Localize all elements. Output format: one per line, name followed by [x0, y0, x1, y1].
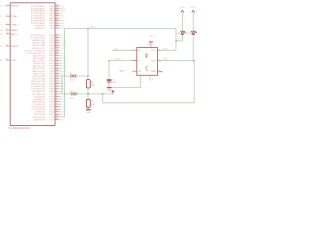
svg-text:smd: smd: [70, 97, 74, 99]
svg-text:(A8/PCINT): (A8/PCINT): [34, 118, 46, 121]
IC1 right pin row 28: [55, 78, 60, 80]
svg-text:(WR/INT7): (WR/INT7): [35, 28, 46, 30]
svg-text:4: 4: [158, 49, 159, 51]
svg-text:A14: A14: [60, 106, 65, 109]
svg-text:ADC4: ADC4: [60, 65, 66, 68]
wire bottom long horizontal: [103, 102, 195, 104]
svg-text:(ADC6/TDO): (ADC6/TDO): [32, 70, 45, 73]
svg-text:VCC: VCC: [180, 7, 185, 9]
svg-text:(ADC7/TDI): (ADC7/TDI): [34, 72, 46, 75]
svg-text:AGND: AGND: [12, 45, 19, 48]
svg-text:4N35: 4N35: [119, 71, 125, 73]
junction divider tap: [87, 93, 89, 95]
svg-text:C1: C1: [112, 79, 115, 81]
IC1 right pin row 25: [55, 70, 60, 72]
svg-text:32: 32: [6, 29, 8, 31]
svg-text:A13: A13: [60, 103, 65, 106]
svg-text:AD4: AD4: [60, 111, 65, 114]
svg-text:LED2: LED2: [188, 33, 193, 35]
svg-text:(ADC4/TCK): (ADC4/TCK): [33, 65, 46, 68]
IC1 right pin row 24: [55, 67, 60, 69]
ground symbol under cap: [107, 87, 112, 88]
IC1 left pin XTAL1: [6, 24, 11, 26]
wire long horizontal top: [65, 28, 177, 30]
supply bar on IC2 top pin: [149, 41, 153, 43]
IC1 left pin XTAL2: [6, 15, 11, 17]
IC2 internal transistor symbol: [146, 66, 148, 71]
svg-text:(OC0A/INT4): (OC0A/INT4): [32, 93, 45, 96]
IC1 right pin row 22: [55, 62, 60, 64]
wire bottom right riser: [193, 61, 195, 103]
ground symbol below R2: [86, 109, 91, 110]
svg-text:R1: R1: [91, 82, 95, 84]
svg-text:IC1 MEGA128-16AU: IC1 MEGA128-16AU: [9, 127, 31, 130]
IC1 right pin row 2: [55, 7, 60, 9]
IC1 left pin AVCC: [6, 33, 11, 35]
wire IC1 pin through SJ2 to corner: [60, 93, 113, 95]
IC1 right pin row 7: [55, 20, 60, 22]
svg-text:4: 4: [152, 79, 154, 81]
IC2 bottom pin stub: [149, 75, 151, 80]
junction jumper SJ1 wire: [87, 75, 89, 77]
IC1 right pin row 35: [55, 95, 60, 97]
wire vertical link between jumper rows: [61, 76, 63, 94]
svg-text:(T2/XTAL0): (T2/XTAL0): [34, 113, 45, 116]
wire IC2 pin2 to cap column: [109, 60, 137, 62]
wire riser vertical: [64, 29, 66, 117]
svg-text:A12: A12: [60, 100, 65, 103]
svg-text:ADC0: ADC0: [60, 54, 66, 57]
IC1 right pin row 11: [55, 34, 60, 36]
svg-text:RST: RST: [0, 6, 4, 8]
svg-text:AREF: AREF: [12, 29, 18, 32]
svg-text:(OC2A/OC1A): (OC2A/OC1A): [31, 85, 45, 88]
svg-text:OC1A: OC1A: [60, 42, 66, 45]
IC1 right pin row 8: [55, 22, 60, 24]
svg-text:GND: GND: [12, 60, 17, 62]
IC1 right pin row 9: [55, 25, 60, 27]
IC1 left pin GND: [6, 59, 11, 61]
svg-text:XTAL1: XTAL1: [12, 23, 19, 26]
wire down to IC2 pin row: [175, 29, 177, 51]
resistor R1: [86, 80, 90, 89]
IC1 right pin row 31: [55, 85, 60, 87]
IC1 right pin row 32: [55, 88, 60, 90]
IC1 right pin row 40: [55, 108, 60, 110]
LED2: [192, 31, 195, 34]
wire between resistors: [87, 88, 89, 94]
svg-text:(ADC0/TCK): (ADC0/TCK): [33, 54, 46, 57]
svg-text:5: 5: [158, 59, 159, 61]
svg-text:GND: GND: [107, 90, 112, 92]
IC1 left pin RESET: [6, 5, 11, 7]
junction cap column: [108, 60, 110, 62]
svg-text:VCC: VCC: [191, 7, 196, 9]
svg-text:(ADC5/TMS): (ADC5/TMS): [32, 67, 45, 70]
IC1 right pin row 44: [55, 118, 60, 120]
svg-text:OUT: OUT: [151, 61, 156, 63]
wire VCC to LED2: [192, 12, 194, 31]
svg-text:100n: 100n: [112, 82, 116, 84]
IC1 right pin row 38: [55, 103, 60, 105]
LED1: [181, 31, 184, 34]
svg-text:VCC: VCC: [114, 48, 119, 50]
svg-text:A10: A10: [60, 95, 65, 98]
svg-text:ADC5: ADC5: [60, 67, 66, 70]
svg-text:2: 2: [133, 59, 134, 61]
svg-text:R2: R2: [91, 101, 95, 103]
IC1 right pin row 26: [55, 72, 60, 74]
svg-text:13: 13: [6, 23, 8, 25]
IC1 right pin row 19: [55, 55, 60, 57]
wire LED2 bottom: [192, 35, 194, 61]
IC1 right pin row 5: [55, 15, 60, 17]
IC1 right pin row 42: [55, 113, 60, 115]
svg-text:LED1: LED1: [163, 48, 169, 50]
IC1 right pin row 30: [55, 83, 60, 85]
IC1 right pin row 37: [55, 101, 60, 103]
svg-text:(SCK/OC0A): (SCK/OC0A): [32, 77, 45, 80]
svg-text:3: 3: [133, 70, 134, 72]
svg-text:XTAL2: XTAL2: [12, 15, 19, 18]
IC1 right pin row 41: [55, 111, 60, 113]
svg-text:RESET: RESET: [12, 6, 20, 8]
junction LED2 column: [193, 60, 195, 62]
svg-text:K: K: [138, 61, 140, 63]
svg-text:ADC7: ADC7: [60, 72, 66, 75]
wire IC1 pin to jumper SJ1: [60, 75, 89, 77]
microcontroller IC1 body: [10, 3, 55, 126]
solder jumper SJ1: [70, 75, 73, 78]
svg-text:12: 12: [6, 15, 8, 17]
IC1 left pin AREF: [6, 29, 11, 31]
IC2 internal LED symbol: [145, 54, 147, 58]
wire IC2 bottom to ground node: [140, 75, 142, 87]
svg-text:XT1: XT1: [0, 24, 4, 26]
svg-text:+5V: +5V: [149, 35, 153, 37]
svg-text:11: 11: [6, 59, 8, 61]
svg-text:A: A: [138, 49, 140, 52]
IC1 left pin AGND: [6, 45, 11, 47]
IC1 right pin row 4: [55, 12, 60, 14]
IC1 right pin row 18: [55, 52, 60, 54]
svg-text:LED1: LED1: [177, 33, 182, 35]
IC1 right pin row 13: [55, 39, 60, 41]
svg-text:GND: GND: [159, 71, 164, 73]
IC1 right pin row 23: [55, 65, 60, 67]
wire IC1 pin to riser: [60, 116, 65, 118]
svg-text:(MOSI/OC2A): (MOSI/OC2A): [31, 80, 45, 83]
IC2 top pin stub: [150, 42, 152, 47]
solder jumper SJ2: [71, 93, 74, 96]
svg-text:(ADC1/TMS): (ADC1/TMS): [32, 57, 45, 60]
svg-text:ADC6: ADC6: [60, 70, 66, 73]
wire branch to LED1: [176, 40, 182, 42]
svg-text:MOSI: MOSI: [115, 59, 121, 61]
svg-text:53: 53: [56, 118, 58, 120]
IC1 right pin row 43: [55, 116, 60, 118]
svg-text:31: 31: [6, 45, 8, 47]
IC1 right pin row 15: [55, 44, 60, 46]
svg-text:ADC2: ADC2: [60, 60, 66, 63]
resistor R2: [86, 99, 90, 107]
wire VCC to LED1: [181, 12, 183, 31]
svg-text:1: 1: [133, 49, 134, 51]
svg-text:(ADC2/TDO): (ADC2/TDO): [32, 60, 45, 63]
wire LED1 bottom: [181, 35, 183, 41]
IC2 right pin 4: [158, 49, 163, 51]
svg-text:(OC1A/XCK1): (OC1A/XCK1): [31, 88, 45, 91]
svg-text:ARF: ARF: [0, 29, 4, 32]
capacitor C1 plates: [107, 79, 112, 81]
IC2 left pin 3: [132, 70, 137, 72]
wire R2 top stub: [87, 94, 89, 99]
svg-text:RD: RD: [50, 28, 54, 30]
IC1 right pin row 33: [55, 90, 60, 92]
junction at LED1 branch: [175, 40, 177, 42]
svg-text:AD7: AD7: [60, 118, 65, 121]
wire cap to ground node: [108, 82, 110, 87]
svg-text:TXD: TXD: [60, 28, 65, 30]
IC1 right pin row 3: [55, 10, 60, 12]
IC1 right pin row 17: [55, 49, 60, 51]
IC1 right pin row 20: [55, 57, 60, 59]
svg-text:30: 30: [6, 33, 8, 35]
svg-text:A11: A11: [60, 98, 64, 101]
IC1 right pin row 39: [55, 106, 60, 108]
IC1 right pin row 34: [55, 93, 60, 95]
svg-text:ADC1: ADC1: [60, 57, 66, 60]
svg-text:AGN: AGN: [0, 45, 3, 48]
supply +5V cross symbol: [112, 90, 114, 94]
svg-text:A15: A15: [60, 108, 65, 111]
wire IC2 right pin2 to LED2 column: [162, 60, 194, 62]
svg-text:MISO: MISO: [90, 26, 96, 28]
svg-text:GND: GND: [0, 60, 3, 62]
junction top wire / divider column: [87, 28, 89, 30]
wire bottom left corner down: [102, 94, 104, 103]
IC2 left pin 1: [132, 49, 137, 51]
svg-text:AD5: AD5: [60, 113, 65, 116]
IC1 right pin row 12: [55, 37, 60, 39]
IC1 right pin row 21: [55, 60, 60, 62]
IC2 left pin 2: [132, 60, 137, 62]
IC1 right pin row 36: [55, 98, 60, 100]
svg-text:31: 31: [56, 27, 58, 29]
wire cap column vertical: [108, 61, 110, 80]
IC1 right pin row 10: [55, 27, 60, 29]
IC2 right pin 5: [158, 60, 163, 62]
svg-text:AVC: AVC: [0, 33, 3, 36]
wire IC2 right pin1 to riser: [162, 49, 176, 51]
svg-text:9: 9: [6, 4, 7, 6]
optocoupler IC2 body: [137, 48, 158, 76]
svg-text:XT2: XT2: [0, 16, 4, 18]
wire divider column upper: [87, 29, 89, 80]
wire IC2 left pin1 stub with label: [112, 49, 132, 51]
svg-text:PC1: PC1: [49, 119, 54, 121]
IC1 right pin row 6: [55, 17, 60, 19]
svg-text:GND: GND: [151, 71, 156, 73]
svg-text:smd: smd: [69, 80, 73, 82]
svg-text:(SDA/INT1): (SDA/INT1): [34, 98, 46, 101]
IC2 right pin 6: [158, 70, 163, 72]
IC1 right pin row 16: [55, 47, 60, 49]
IC1 right pin row 1: [55, 5, 60, 7]
svg-text:AVCC: AVCC: [12, 33, 18, 36]
wire R2 to ground: [87, 107, 89, 109]
svg-text:(AIN1/OC3A): (AIN1/OC3A): [32, 42, 45, 45]
IC1 right pin row 14: [55, 42, 60, 44]
svg-text:2k2: 2k2: [91, 85, 95, 87]
junction bottom corner: [102, 93, 104, 95]
svg-text:NC: NC: [138, 71, 142, 73]
svg-text:(ADC3/TDI): (ADC3/TDI): [34, 62, 46, 65]
IC1 right pin row 27: [55, 75, 60, 77]
svg-text:10k: 10k: [91, 104, 95, 106]
svg-text:ADC3: ADC3: [60, 62, 66, 65]
svg-text:VCC: VCC: [151, 50, 156, 52]
svg-text:LED2: LED2: [163, 59, 169, 61]
svg-text:(AIN0/XCK0): (AIN0/XCK0): [32, 39, 45, 42]
svg-text:GND: GND: [86, 112, 91, 114]
IC1 right pin row 29: [55, 80, 60, 82]
svg-text:A8: A8: [60, 90, 63, 93]
